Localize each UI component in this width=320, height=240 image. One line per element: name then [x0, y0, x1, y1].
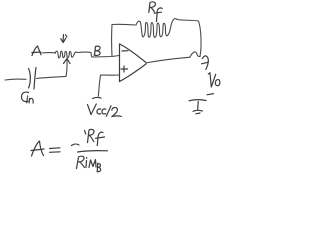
capacitor Cin left wire [5, 78, 26, 81]
eq fraction bar [78, 151, 108, 152]
eq numerator Rf [85, 129, 105, 145]
wire +input to Vcc/2 [98, 75, 119, 96]
eq denominator Rin B [77, 156, 101, 172]
eq letter A [32, 141, 44, 156]
output wire from op-amp [146, 52, 200, 63]
wire node B to inverting input [92, 56, 119, 58]
feedback wire left and top [112, 24, 136, 56]
resistor Rin [55, 51, 78, 58]
label Vo [207, 73, 220, 95]
node A label [32, 46, 41, 56]
equation A = -Rf/Rin [31, 129, 108, 171]
current arrow above Rin [61, 35, 67, 43]
eq minus sign [72, 144, 80, 145]
label Vcc/2 [88, 104, 122, 117]
wire Rin to node B [78, 52, 92, 57]
wire A to Rin [42, 52, 55, 54]
capacitor Cin plates [29, 68, 37, 90]
feedback wire top right and right side [177, 20, 201, 57]
label Cin [22, 92, 34, 103]
output arrow [202, 56, 209, 70]
capacitor Cin right wire [37, 77, 67, 79]
eq equals sign [50, 148, 61, 153]
op-amp U1 [120, 44, 147, 82]
node B label [94, 46, 100, 55]
label Rf [149, 2, 162, 22]
ground at output [189, 100, 206, 114]
resistor Rf [136, 19, 177, 38]
Vcc/2 terminal bar [93, 98, 102, 99]
wire Cin up to Rin with arrow [64, 59, 71, 77]
